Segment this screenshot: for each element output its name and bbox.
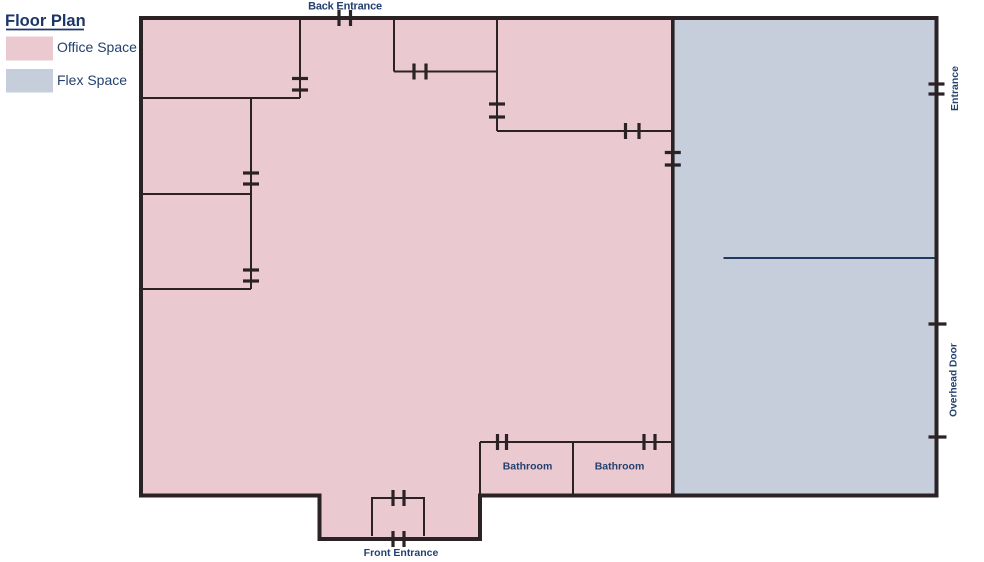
wire wall top-mid left xyxy=(393,18,395,72)
door divider xyxy=(665,151,681,154)
flex space fill xyxy=(673,18,937,496)
svg-text:Entrance: Entrance xyxy=(949,66,961,111)
door room3 xyxy=(243,268,259,271)
door front entrance outer xyxy=(391,531,394,547)
wire front entrance vestibule xyxy=(372,498,424,536)
door back entrance xyxy=(337,10,340,26)
svg-text:Overhead Door: Overhead Door xyxy=(949,343,960,417)
door front entrance inner xyxy=(391,490,394,506)
wire bathroom middle wall xyxy=(572,442,574,496)
door room1 xyxy=(292,77,308,80)
wire wall upper-right bottom xyxy=(497,130,673,132)
node legend office swatch xyxy=(6,37,53,61)
door upper-right room side xyxy=(489,102,505,105)
wire bathroom left wall xyxy=(479,442,481,496)
svg-text:Office Space: Office Space xyxy=(57,39,137,55)
wire divider wall xyxy=(671,18,675,496)
svg-text:Flex Space: Flex Space xyxy=(57,72,127,88)
wire outer walls xyxy=(141,18,937,539)
door top-mid room xyxy=(412,64,415,80)
door entrance right xyxy=(929,82,945,85)
wire wall room2 bottom xyxy=(141,193,251,195)
svg-text:Front Entrance: Front Entrance xyxy=(364,547,439,559)
door ticks xyxy=(243,10,947,547)
wire wall top-mid bottom xyxy=(394,71,497,73)
svg-text:Back Entrance: Back Entrance xyxy=(308,1,382,13)
wire flex space mezzanine line xyxy=(724,257,937,259)
svg-text:Floor Plan: Floor Plan xyxy=(5,12,86,30)
door bathroom 2 xyxy=(642,434,645,450)
door upper-right room bottom xyxy=(624,123,627,139)
svg-text:Bathroom: Bathroom xyxy=(595,461,645,473)
wire interior walls xyxy=(141,18,673,536)
wire wall top-mid right xyxy=(496,18,498,131)
wire wall room3 bottom xyxy=(141,288,251,290)
door room2 xyxy=(243,171,259,174)
node legend flex swatch xyxy=(6,69,53,93)
office space fill xyxy=(141,18,673,539)
svg-text:Bathroom: Bathroom xyxy=(503,461,553,473)
wire bathroom top wall xyxy=(480,441,673,443)
door overhead bottom mark xyxy=(929,435,947,438)
door bathroom 1 xyxy=(496,434,499,450)
wire wall room1 right xyxy=(299,18,301,98)
wire wall rooms2-3 right xyxy=(250,98,252,289)
wire wall room1 bottom xyxy=(141,97,300,99)
door overhead top mark xyxy=(929,322,947,325)
